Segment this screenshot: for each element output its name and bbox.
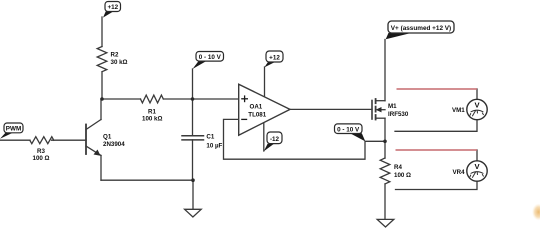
svg-text:C1: C1 bbox=[206, 134, 214, 141]
svg-text:V+ (assumed +12 V): V+ (assumed +12 V) bbox=[391, 25, 451, 32]
svg-text:TL081: TL081 bbox=[248, 111, 266, 118]
svg-text:0 - 10 V: 0 - 10 V bbox=[337, 126, 360, 133]
svg-text:M1: M1 bbox=[388, 103, 397, 110]
svg-text:+12: +12 bbox=[269, 54, 280, 61]
svg-text:100 Ω: 100 Ω bbox=[394, 172, 411, 179]
svg-text:VM1: VM1 bbox=[452, 107, 465, 114]
svg-text:10 µF: 10 µF bbox=[206, 142, 222, 149]
svg-text:VR4: VR4 bbox=[453, 169, 466, 176]
svg-text:2N3904: 2N3904 bbox=[103, 141, 125, 148]
svg-text:IRF530: IRF530 bbox=[388, 111, 409, 118]
svg-text:100 Ω: 100 Ω bbox=[33, 155, 50, 162]
svg-text:R4: R4 bbox=[394, 164, 402, 171]
svg-text:30 kΩ: 30 kΩ bbox=[111, 59, 128, 66]
svg-text:+12: +12 bbox=[107, 4, 118, 11]
svg-text:Q1: Q1 bbox=[103, 134, 112, 141]
svg-text:100 kΩ: 100 kΩ bbox=[142, 115, 162, 122]
svg-text:R2: R2 bbox=[111, 52, 119, 59]
svg-text:OA1: OA1 bbox=[250, 104, 263, 111]
svg-text:PWM: PWM bbox=[6, 126, 21, 133]
svg-text:0 - 10 V: 0 - 10 V bbox=[199, 54, 222, 61]
svg-text:-12: -12 bbox=[270, 136, 280, 143]
